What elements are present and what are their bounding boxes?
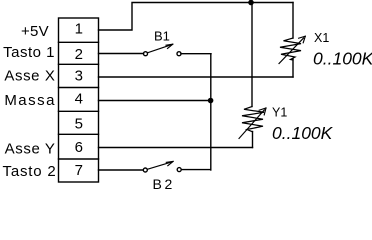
svg-text:3: 3	[75, 68, 83, 85]
svg-text:0..100K: 0..100K	[313, 49, 372, 69]
svg-text:0..100K: 0..100K	[272, 123, 334, 143]
svg-text:Asse Y: Asse Y	[5, 141, 56, 158]
svg-text:B1: B1	[154, 28, 170, 43]
svg-text:4: 4	[75, 91, 83, 108]
svg-text:6: 6	[75, 139, 83, 156]
svg-text:2: 2	[75, 46, 83, 63]
svg-text:+5V: +5V	[21, 23, 49, 40]
svg-text:5: 5	[75, 115, 83, 132]
svg-text:Asse X: Asse X	[4, 68, 55, 85]
svg-text:Y1: Y1	[272, 106, 287, 120]
svg-text:B2: B2	[153, 176, 175, 191]
svg-text:Massa: Massa	[4, 92, 56, 109]
svg-text:X1: X1	[314, 31, 329, 45]
svg-text:1: 1	[75, 21, 83, 38]
svg-text:Tasto 2: Tasto 2	[3, 163, 57, 180]
svg-text:7: 7	[75, 162, 83, 179]
svg-text:Tasto 1: Tasto 1	[3, 44, 55, 61]
